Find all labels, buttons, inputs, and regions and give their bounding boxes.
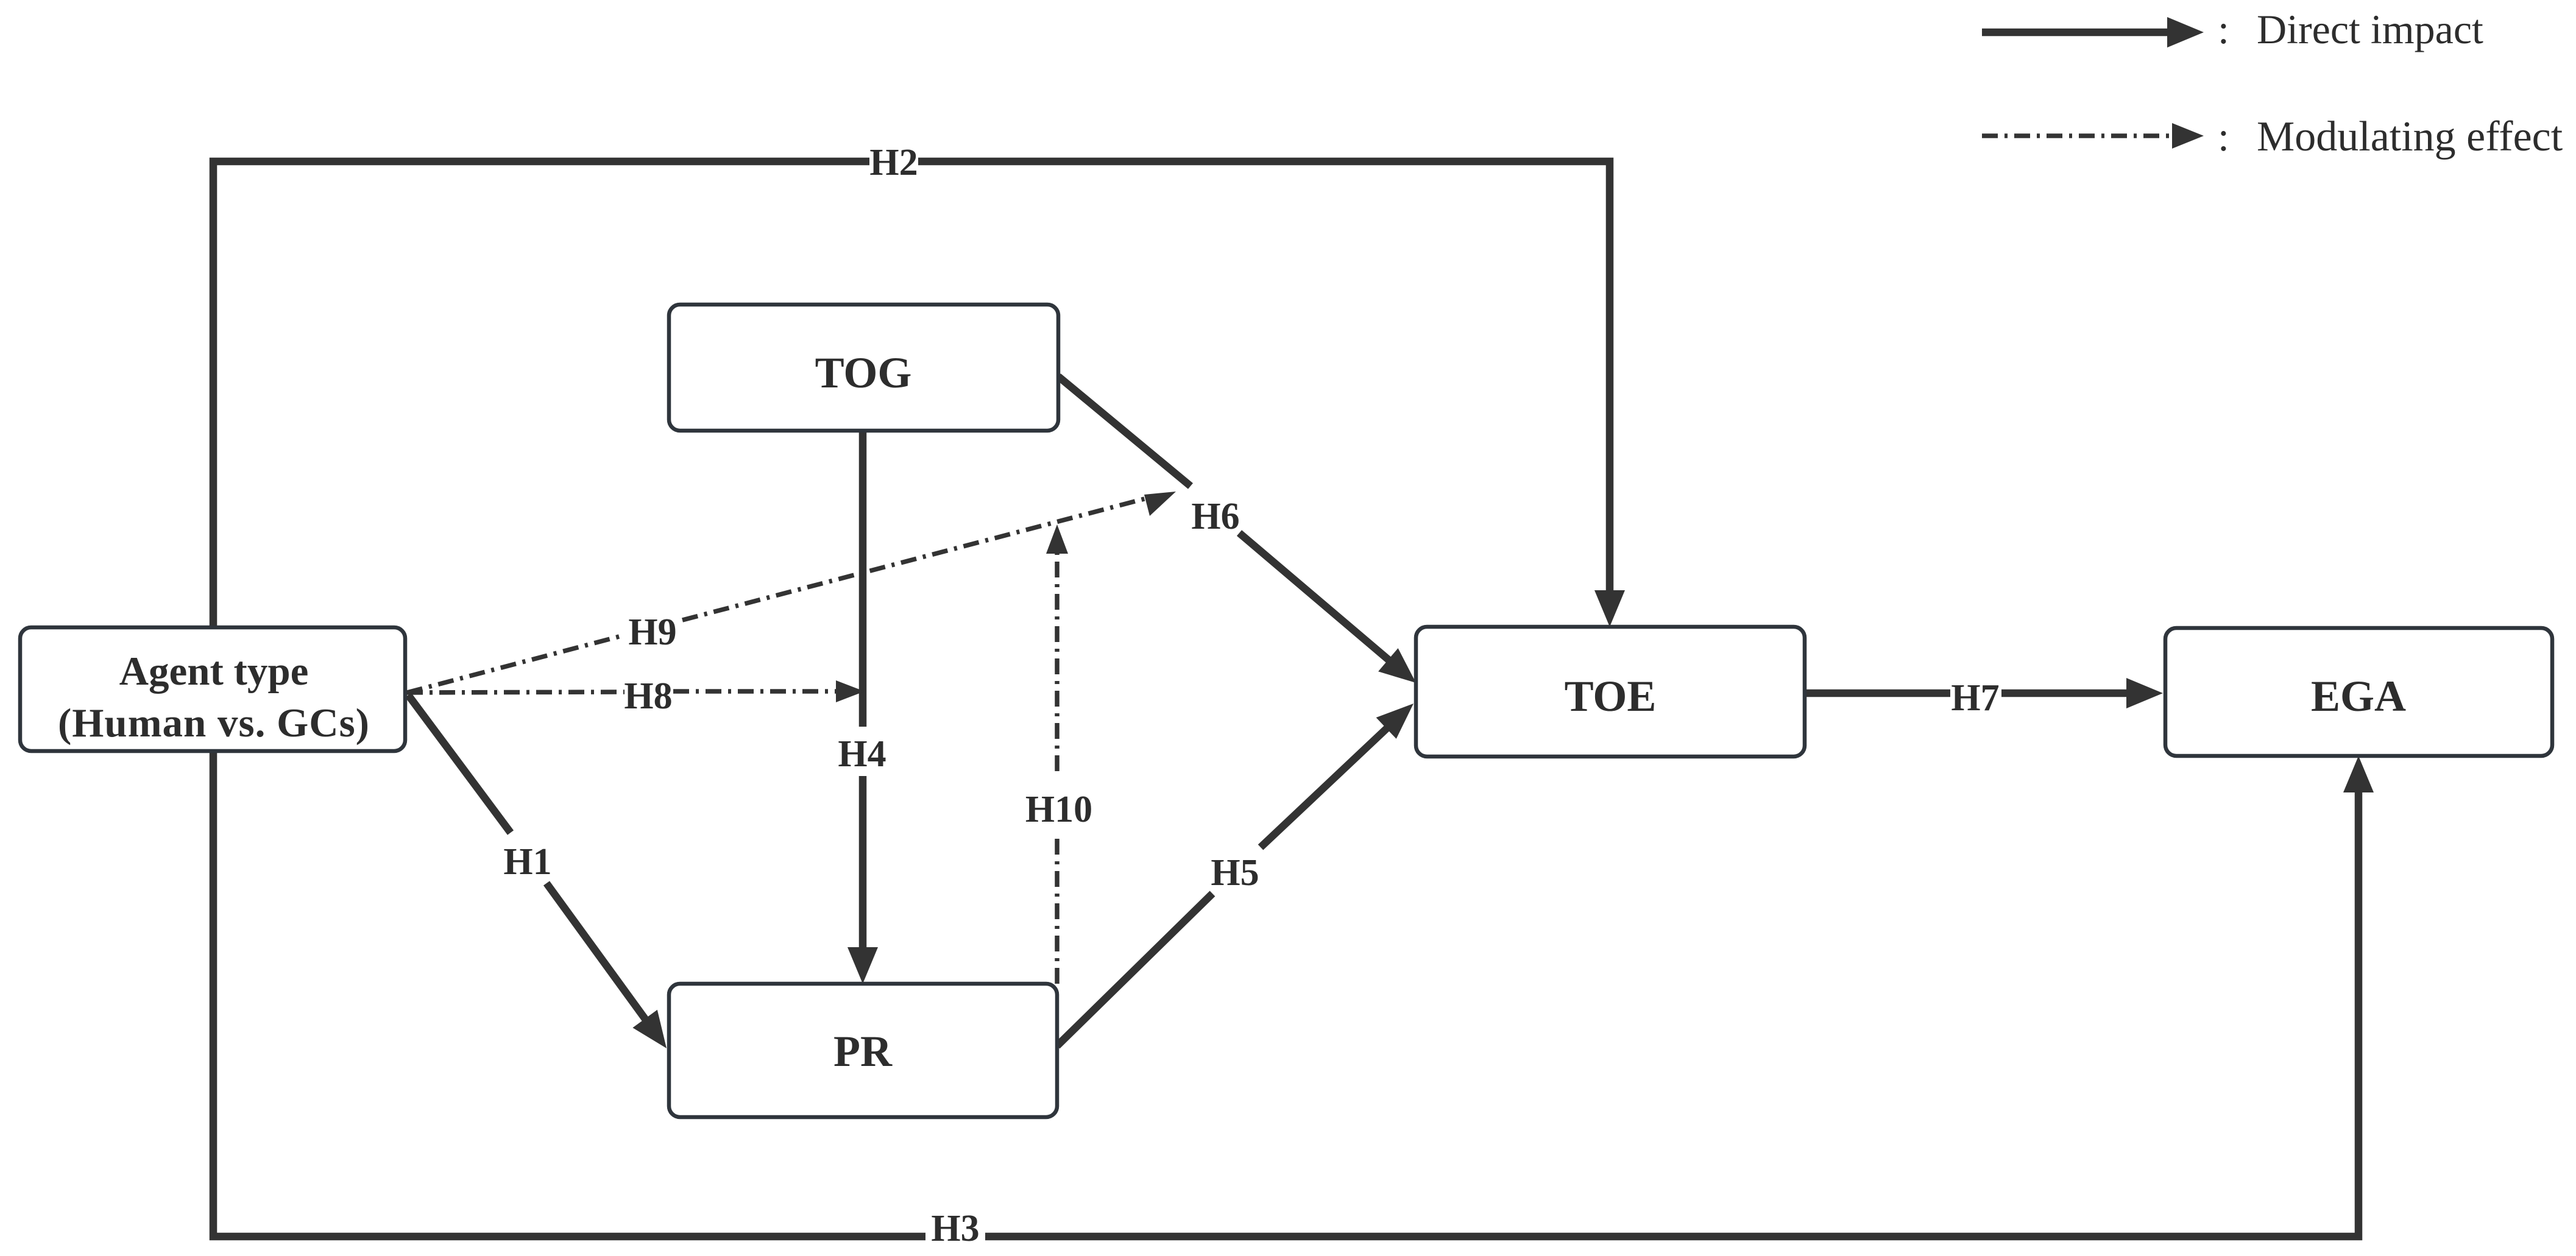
- svg-text::: :: [2218, 6, 2229, 52]
- box TOE: [1416, 627, 1805, 757]
- svg-text:H10: H10: [1025, 789, 1092, 830]
- svg-text:H8: H8: [624, 676, 672, 717]
- arrow H6: TOG -> TOE: [1058, 376, 1416, 683]
- arrow H4: TOG -> PR: [847, 431, 878, 984]
- svg-text:TOG: TOG: [815, 348, 912, 397]
- svg-text:H7: H7: [1951, 677, 1999, 719]
- box EGA: [2165, 628, 2552, 756]
- dash-dot arrow H9: Agent -> H6 line: [407, 492, 1176, 693]
- svg-text:H4: H4: [838, 733, 886, 775]
- wire H2: Agent top -> up -> right -> down into TOE: [213, 161, 1625, 627]
- box Agent type: [20, 627, 405, 751]
- svg-text:H1: H1: [503, 841, 551, 883]
- arrow H7: TOE -> EGA: [1805, 678, 2163, 708]
- arrow H1: Agent -> PR: [408, 695, 667, 1048]
- dash-dot arrow H8: Agent -> H4 line: [407, 680, 865, 702]
- legend dash-dot arrow: [1982, 123, 2204, 149]
- svg-text:(Human vs. GCs): (Human vs. GCs): [58, 700, 370, 746]
- arrow H5: PR -> TOE: [1057, 704, 1414, 1046]
- dash-dot arrow H10: PR top -> H6 line: [1046, 524, 1068, 984]
- svg-text:PR: PR: [833, 1027, 893, 1076]
- box PR: [669, 984, 1057, 1117]
- svg-text::: :: [2218, 113, 2229, 160]
- svg-text:H6: H6: [1191, 496, 1239, 537]
- svg-text:TOE: TOE: [1565, 672, 1657, 721]
- svg-text:H5: H5: [1211, 852, 1259, 894]
- svg-text:Agent type: Agent type: [119, 649, 309, 694]
- box TOG: [669, 305, 1058, 431]
- wire H3: Agent bottom -> down -> right -> up into EGA: [213, 751, 2374, 1237]
- svg-text:H3: H3: [931, 1208, 979, 1249]
- svg-text:EGA: EGA: [2311, 672, 2406, 721]
- svg-text:H2: H2: [869, 142, 918, 183]
- legend solid arrow: [1982, 17, 2204, 48]
- svg-text:H9: H9: [628, 612, 676, 653]
- svg-text:Modulating effect: Modulating effect: [2257, 113, 2563, 160]
- svg-text:Direct impact: Direct impact: [2257, 6, 2483, 52]
